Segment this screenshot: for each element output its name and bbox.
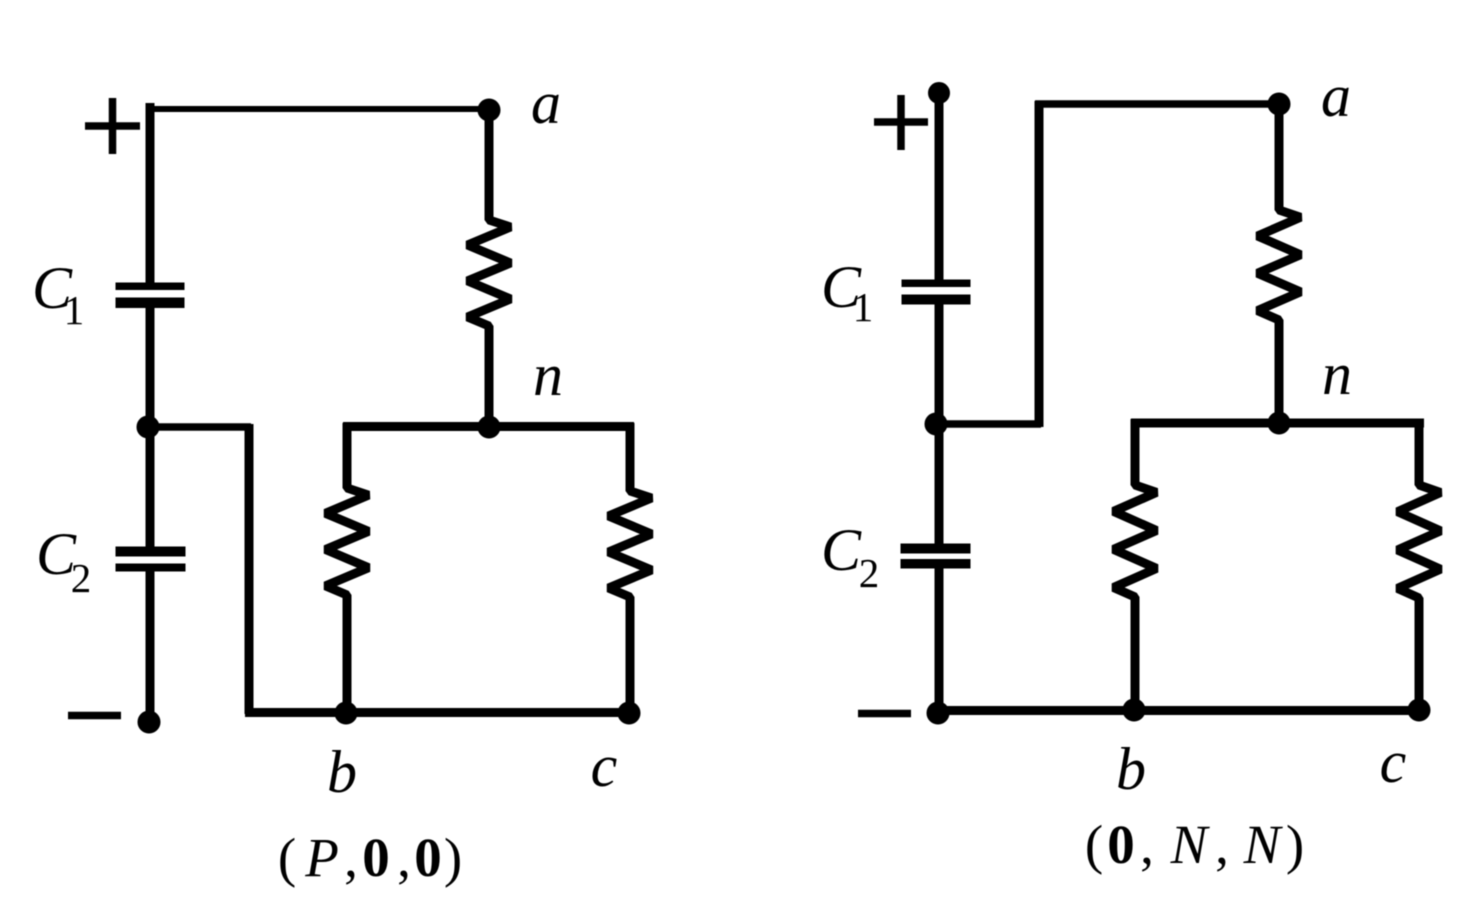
svg-text:P: P <box>304 827 339 888</box>
wire : right vertical from C2 to negative terminal <box>935 568 944 713</box>
svg-text:): ) <box>444 827 462 888</box>
svg-text:,: , <box>1215 814 1229 875</box>
resistor phase c (right), between n rail and c <box>1398 419 1441 710</box>
wire : top wire from + lead to node a <box>146 106 489 112</box>
wire : step vertical up to top wire (right) <box>1035 101 1044 427</box>
svg-text:2: 2 <box>71 555 92 601</box>
svg-text:N: N <box>1243 814 1284 875</box>
svg-text:0: 0 <box>362 827 390 888</box>
minus terminal - symbol (right) <box>858 710 911 718</box>
resistor phase b (left), between n rail and b <box>326 423 369 713</box>
svg-text:,: , <box>397 827 411 888</box>
svg-text:,: , <box>1140 814 1154 875</box>
node : capacitor midpoint junction (right) <box>925 413 947 435</box>
capacitor C2 (left) top plate <box>116 547 185 556</box>
svg-text:n: n <box>533 342 563 408</box>
node a dot (left) <box>478 99 500 121</box>
wire : right vertical between C1 and C2 <box>935 304 944 544</box>
node : negative terminal dot (left) <box>138 711 160 733</box>
wire : right source positive lead <box>935 93 944 282</box>
svg-text:c: c <box>591 733 618 799</box>
node c dot (left) <box>618 702 640 724</box>
plus terminal + symbol (right) <box>874 95 928 150</box>
wire : midpoint step, horizontal then down to bottom rail <box>148 423 251 431</box>
svg-text:(: ( <box>1085 814 1103 875</box>
wire : left source positive lead (top vertical) <box>146 103 155 285</box>
node n dot (right) <box>1268 412 1290 434</box>
wire : step vertical down to bottom rail (left) <box>245 424 254 714</box>
svg-text:b: b <box>1116 736 1146 802</box>
svg-text:1: 1 <box>853 284 874 330</box>
capacitor C1 (left) bottom plate <box>116 298 184 308</box>
resistor phase b (right), between n rail and b <box>1114 419 1157 710</box>
svg-text:0: 0 <box>414 827 442 888</box>
resistor phase a (right), between a and n <box>1258 104 1301 423</box>
node b dot (left) <box>335 702 357 724</box>
wire : neutral rail at node n (right) <box>1131 419 1424 428</box>
svg-text:0: 0 <box>1107 814 1135 875</box>
node b dot (right) <box>1123 699 1145 721</box>
capacitor C2 (left) bottom plate <box>116 564 185 571</box>
svg-text:N: N <box>1170 814 1211 875</box>
wire : left vertical from C2 to negative terminal <box>146 571 155 722</box>
node : capacitor midpoint junction (left) <box>137 416 159 438</box>
node : positive terminal dot (right) <box>929 83 950 104</box>
svg-text:): ) <box>1286 814 1304 875</box>
svg-text:b: b <box>327 739 357 805</box>
capacitor C1 (right) top plate <box>902 280 970 287</box>
svg-text:2: 2 <box>859 550 880 596</box>
svg-text:a: a <box>531 70 561 136</box>
wire : neutral rail at node n (left) <box>343 422 634 431</box>
wire : bottom rail (right) <box>934 706 1423 715</box>
node n dot (left) <box>478 416 500 438</box>
svg-text:(: ( <box>278 827 296 888</box>
minus terminal - symbol <box>68 712 121 720</box>
node c dot (right) <box>1408 699 1430 721</box>
svg-text:c: c <box>1380 729 1407 795</box>
plus terminal + symbol <box>85 98 140 154</box>
wire : left vertical between C1 and C2 <box>146 307 155 547</box>
svg-text:1: 1 <box>64 287 85 333</box>
capacitor C1 (right) bottom plate <box>902 295 970 304</box>
wire : top wire to node a (right) <box>1035 100 1279 108</box>
capacitor C2 (right) bottom plate <box>901 560 970 569</box>
resistor phase a (left), between a and n <box>468 110 511 427</box>
svg-text:,: , <box>344 827 358 888</box>
wire : midpoint step, horizontal then up to top wire <box>936 420 1041 428</box>
capacitor C2 (right) top plate <box>901 544 970 553</box>
node a dot (right) <box>1268 93 1290 115</box>
resistor phase c (left), between n rail and c <box>609 423 652 713</box>
node : negative terminal dot (right) <box>927 702 949 724</box>
svg-text:C: C <box>821 517 862 583</box>
svg-text:n: n <box>1322 341 1352 407</box>
svg-text:a: a <box>1321 63 1351 129</box>
capacitor C1 (left) top plate <box>116 283 184 290</box>
wire : bottom rail b-c (left) <box>245 708 633 717</box>
